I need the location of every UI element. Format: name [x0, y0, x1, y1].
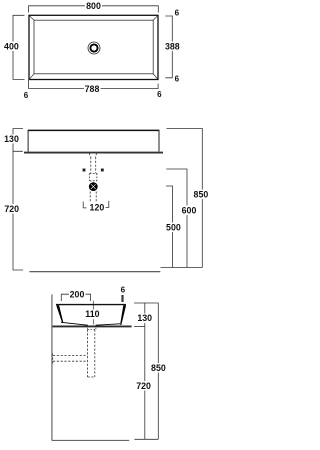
right dimensions bottom connector — [161, 267, 203, 269]
front basin left edge — [27, 130, 29, 152]
drain pipe upper dashed — [91, 157, 96, 173]
corner bevel bottom-left — [30, 73, 35, 79]
svg-text:6: 6 — [175, 8, 180, 17]
right dimension 500 — [166, 186, 173, 268]
drain recess dashes — [88, 325, 96, 330]
svg-text:788: 788 — [85, 84, 100, 94]
wall outlet circle — [89, 182, 98, 191]
section floor line — [52, 439, 129, 441]
svg-text:110: 110 — [85, 309, 99, 319]
section drain pipe dashed — [88, 330, 95, 378]
svg-text:120: 120 — [90, 203, 105, 213]
dimension 400 line — [13, 15, 25, 79]
wall line — [51, 294, 53, 440]
dimension 200 line — [61, 294, 90, 301]
svg-text:800: 800 — [86, 1, 101, 11]
right dimension 600 — [166, 169, 187, 268]
front floor line — [30, 271, 161, 273]
svg-text:850: 850 — [194, 190, 209, 200]
tick 6 section — [121, 295, 123, 302]
svg-text:200: 200 — [70, 289, 85, 299]
svg-text:500: 500 — [166, 223, 181, 233]
fixing hole right — [101, 168, 104, 171]
section bowl bottom left — [61, 322, 88, 325]
section left wall wedge — [56, 305, 63, 322]
fixing hole left — [82, 168, 85, 171]
svg-text:130: 130 — [4, 134, 19, 144]
section dimensions bottom connector — [134, 438, 158, 440]
section bowl bottom right — [96, 324, 120, 325]
svg-text:6: 6 — [175, 74, 180, 83]
front basin right edge — [158, 130, 160, 152]
svg-text:720: 720 — [4, 204, 19, 214]
section centerline — [92, 301, 94, 310]
top view inner basin edge rectangle — [34, 20, 153, 74]
section bottom thick line — [52, 325, 131, 327]
section dimension 130/720 line — [134, 303, 145, 439]
left dimension 130/720 line — [13, 129, 23, 270]
section dimension 850 line — [145, 303, 159, 439]
dimension 800 line — [29, 6, 159, 13]
svg-text:720: 720 — [136, 381, 151, 391]
pipe coupling dashed — [90, 173, 97, 181]
right dimension 850 — [167, 129, 203, 268]
svg-text:600: 600 — [182, 206, 197, 216]
section horizontal pipe dashed — [53, 354, 88, 364]
front basin top edge — [28, 129, 159, 131]
front basin bottom thick line — [24, 152, 163, 154]
top view outer rim rectangle — [29, 15, 158, 79]
svg-text:6: 6 — [157, 90, 162, 99]
drain flare dashes — [89, 154, 96, 158]
svg-text:6: 6 — [121, 285, 126, 294]
dimension 388 line — [165, 16, 172, 78]
corner bevel top-left — [30, 16, 35, 21]
svg-text:400: 400 — [4, 41, 19, 51]
corner bevel top-right — [153, 16, 158, 21]
section rim top line — [56, 304, 126, 306]
svg-text:130: 130 — [137, 313, 152, 323]
svg-text:6: 6 — [24, 91, 29, 100]
drain outer circle — [88, 42, 100, 54]
svg-text:388: 388 — [165, 41, 180, 51]
corner bevel bottom-right — [153, 73, 158, 79]
drain pipe lower dashed — [90, 192, 96, 202]
dimension 788 line — [29, 80, 159, 89]
dimension 120 — [83, 201, 109, 208]
svg-text:850: 850 — [151, 363, 166, 373]
section right wall wedge — [120, 305, 126, 325]
drain inner ring — [90, 44, 97, 51]
